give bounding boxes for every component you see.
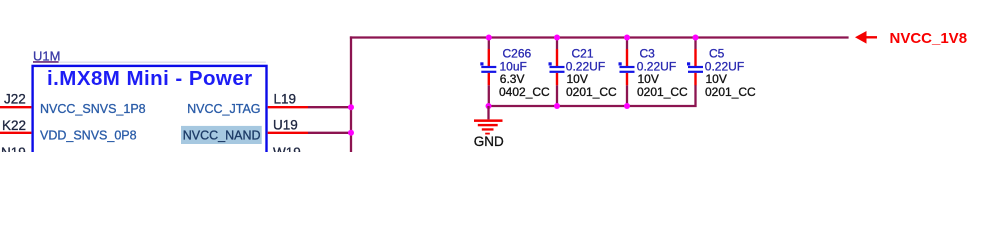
selection highlight on NVCC_NAND (181, 126, 262, 144)
svg-text:0201_CC: 0201_CC (637, 85, 688, 99)
svg-text:10V: 10V (567, 72, 588, 86)
svg-text:NVCC_NAND: NVCC_NAND (183, 129, 261, 143)
wire C21 bottom drop (556, 85, 558, 106)
wire NVCC_1V8 top rail (350, 36, 849, 38)
svg-text:10V: 10V (706, 72, 727, 86)
wire GND stem (487, 106, 489, 119)
svg-text:U19: U19 (273, 118, 298, 133)
refdes U1M (33, 48, 60, 63)
pin L19 (268, 106, 308, 108)
svg-text:i.MX8M Mini - Power: i.MX8M Mini - Power (47, 67, 253, 90)
wire C3 bottom drop (626, 85, 628, 106)
svg-text:VDD_SNVS_0P8: VDD_SNVS_0P8 (40, 129, 137, 143)
wire L19 pin to bus (308, 106, 351, 108)
svg-text:0201_CC: 0201_CC (566, 85, 617, 99)
svg-text:NVCC_JTAG: NVCC_JTAG (187, 102, 260, 116)
capacitor C3 (619, 49, 635, 85)
svg-text:0.22UF: 0.22UF (705, 59, 744, 73)
wire U19 pin to bus (308, 132, 351, 134)
ground (474, 119, 503, 134)
capacitor C5 (687, 49, 703, 85)
junction C3 top (624, 35, 630, 41)
junction C21 top (554, 35, 560, 41)
svg-text:C266: C266 (503, 46, 532, 60)
svg-text:C5: C5 (709, 46, 725, 60)
junction ground rail at C266 (486, 103, 492, 109)
svg-text:GND: GND (474, 134, 504, 149)
pin U19 (268, 132, 308, 134)
wire C266 bottom drop (488, 85, 490, 106)
wire C21 top drop (556, 38, 558, 50)
svg-text:0402_CC: 0402_CC (499, 85, 550, 99)
svg-text:W19: W19 (273, 145, 301, 152)
wire C5 top drop (694, 38, 696, 50)
svg-text:NVCC_SNVS_1P8: NVCC_SNVS_1P8 (40, 102, 146, 116)
svg-text:C21: C21 (572, 46, 594, 60)
junction at bus and L19 wire (348, 104, 354, 110)
svg-text:0201_CC: 0201_CC (705, 85, 756, 99)
component box U1M i.MX8M Mini - Power (33, 66, 267, 176)
svg-text:N19: N19 (1, 145, 26, 152)
svg-text:C3: C3 (640, 46, 656, 60)
pin J22 (0, 106, 31, 108)
svg-text:NVCC_1V8: NVCC_1V8 (890, 30, 968, 47)
junction C266 top (486, 35, 492, 41)
svg-text:K22: K22 (2, 118, 26, 133)
wire C3 top drop (626, 38, 628, 50)
svg-text:0.22UF: 0.22UF (566, 59, 605, 73)
junction ground rail at C3 (624, 103, 630, 109)
pin K22 (0, 132, 31, 134)
svg-text:10uF: 10uF (500, 59, 527, 73)
capacitor C21 (549, 49, 565, 85)
port arrow NVCC_1V8 (855, 31, 877, 44)
capacitor C266 (480, 49, 496, 85)
svg-text:0.22UF: 0.22UF (637, 59, 676, 73)
svg-text:J22: J22 (4, 91, 26, 106)
svg-text:6.3V: 6.3V (500, 72, 525, 86)
junction ground rail at C21 (554, 103, 560, 109)
svg-text:10V: 10V (638, 72, 659, 86)
svg-text:L19: L19 (274, 91, 297, 106)
wire NVCC_1V8 vertical bus (350, 36, 352, 152)
wire ground rail under capacitors (489, 85, 696, 106)
wire C266 top drop (488, 38, 490, 50)
junction C5 top (693, 35, 699, 41)
junction at bus and U19 wire (348, 130, 354, 136)
part outline faint top line (33, 61, 266, 63)
